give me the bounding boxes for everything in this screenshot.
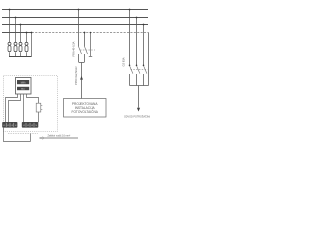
svg-text:ODVOD POTROŠAČIMA: ODVOD POTROŠAČIMA [124, 116, 150, 119]
svg-text:Zaštitni vodič 16 mm²: Zaštitni vodič 16 mm² [48, 134, 71, 137]
svg-text:GS 63A: GS 63A [122, 57, 126, 66]
svg-text:PP00 3x2,5mm²: PP00 3x2,5mm² [74, 66, 78, 85]
svg-text:Mjer: Mjer [21, 88, 26, 91]
svg-text:FRA 40-0,3A: FRA 40-0,3A [71, 41, 75, 56]
svg-text:kWh: kWh [21, 81, 26, 84]
svg-text:FOTOVOLTAIČNA: FOTOVOLTAIČNA [72, 109, 99, 114]
